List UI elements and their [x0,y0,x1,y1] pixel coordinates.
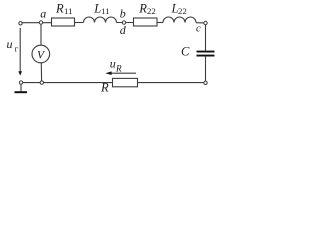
svg-text:11: 11 [101,6,109,16]
svg-text:22: 22 [178,6,187,16]
svg-text:C: C [181,45,190,59]
svg-text:u: u [7,37,13,51]
svg-text:R: R [55,1,64,15]
svg-text:u: u [110,57,116,71]
svg-text:R: R [115,63,122,73]
svg-text:c: c [196,24,201,35]
svg-text:R: R [100,81,109,95]
svg-text:R: R [138,1,147,15]
svg-text:L: L [93,1,101,15]
svg-text:b: b [120,7,126,21]
svg-text:г: г [15,44,19,54]
svg-text:d: d [120,23,127,37]
svg-text:22: 22 [147,6,156,16]
svg-text:11: 11 [64,6,72,16]
svg-text:a: a [40,7,46,21]
